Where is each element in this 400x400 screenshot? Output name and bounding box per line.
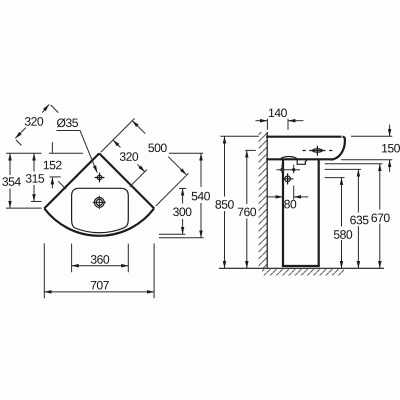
- label 320 upper-left: [25, 117, 43, 126]
- dim 760: [245, 149, 256, 151]
- dim 300: [179, 187, 186, 189]
- floor line: [219, 267, 384, 269]
- wall face line: [266, 132, 268, 268]
- basin front outer arc: [44, 208, 154, 235]
- dim 315: [33, 153, 35, 171]
- pedestal left edge: [282, 159, 284, 266]
- dim 150: [341, 136, 392, 159]
- dim 540: [200, 153, 202, 187]
- label O35: [57, 118, 78, 127]
- basin rim upper-left edge: [44, 153, 99, 208]
- dim 360: [72, 244, 129, 273]
- dim 707: [44, 243, 154, 298]
- leader line for hole dia: [57, 131, 98, 173]
- inner bowl outline: [72, 188, 129, 232]
- dim 635: [325, 168, 361, 170]
- basin underside: [266, 158, 331, 160]
- basin rim upper-right edge: [99, 153, 154, 208]
- top reference line (vertex level): [6, 152, 203, 154]
- dim 354: [9, 153, 11, 175]
- pedestal base: [282, 265, 320, 267]
- basin top surface: [266, 136, 341, 138]
- tap hole symbol (top): [303, 146, 333, 156]
- fixing bracket detail: [297, 159, 307, 164]
- dim 850: [220, 135, 258, 137]
- faucet hole symbol: [95, 173, 105, 183]
- overflow boss profile: [281, 157, 297, 160]
- dim 152: [51, 142, 53, 188]
- floor hatching: [262, 269, 344, 275]
- wall hatching: [259, 132, 268, 268]
- pedestal right edge: [318, 159, 320, 266]
- dim 320 upper-left: dimension line: [15, 128, 25, 139]
- dim 320 upper-left: extension ticks: [16, 105, 66, 189]
- dim 500: [132, 121, 145, 134]
- dim 140: [267, 119, 288, 130]
- dim 320 inner right: [113, 140, 121, 148]
- fixing dots: [277, 165, 301, 174]
- bolt hole symbol: [282, 173, 293, 184]
- dim 670: [325, 163, 383, 165]
- basin front rounded edge: [331, 137, 345, 160]
- drain symbol: [93, 196, 106, 209]
- dim 80: [293, 186, 295, 200]
- dim 580: [325, 177, 345, 179]
